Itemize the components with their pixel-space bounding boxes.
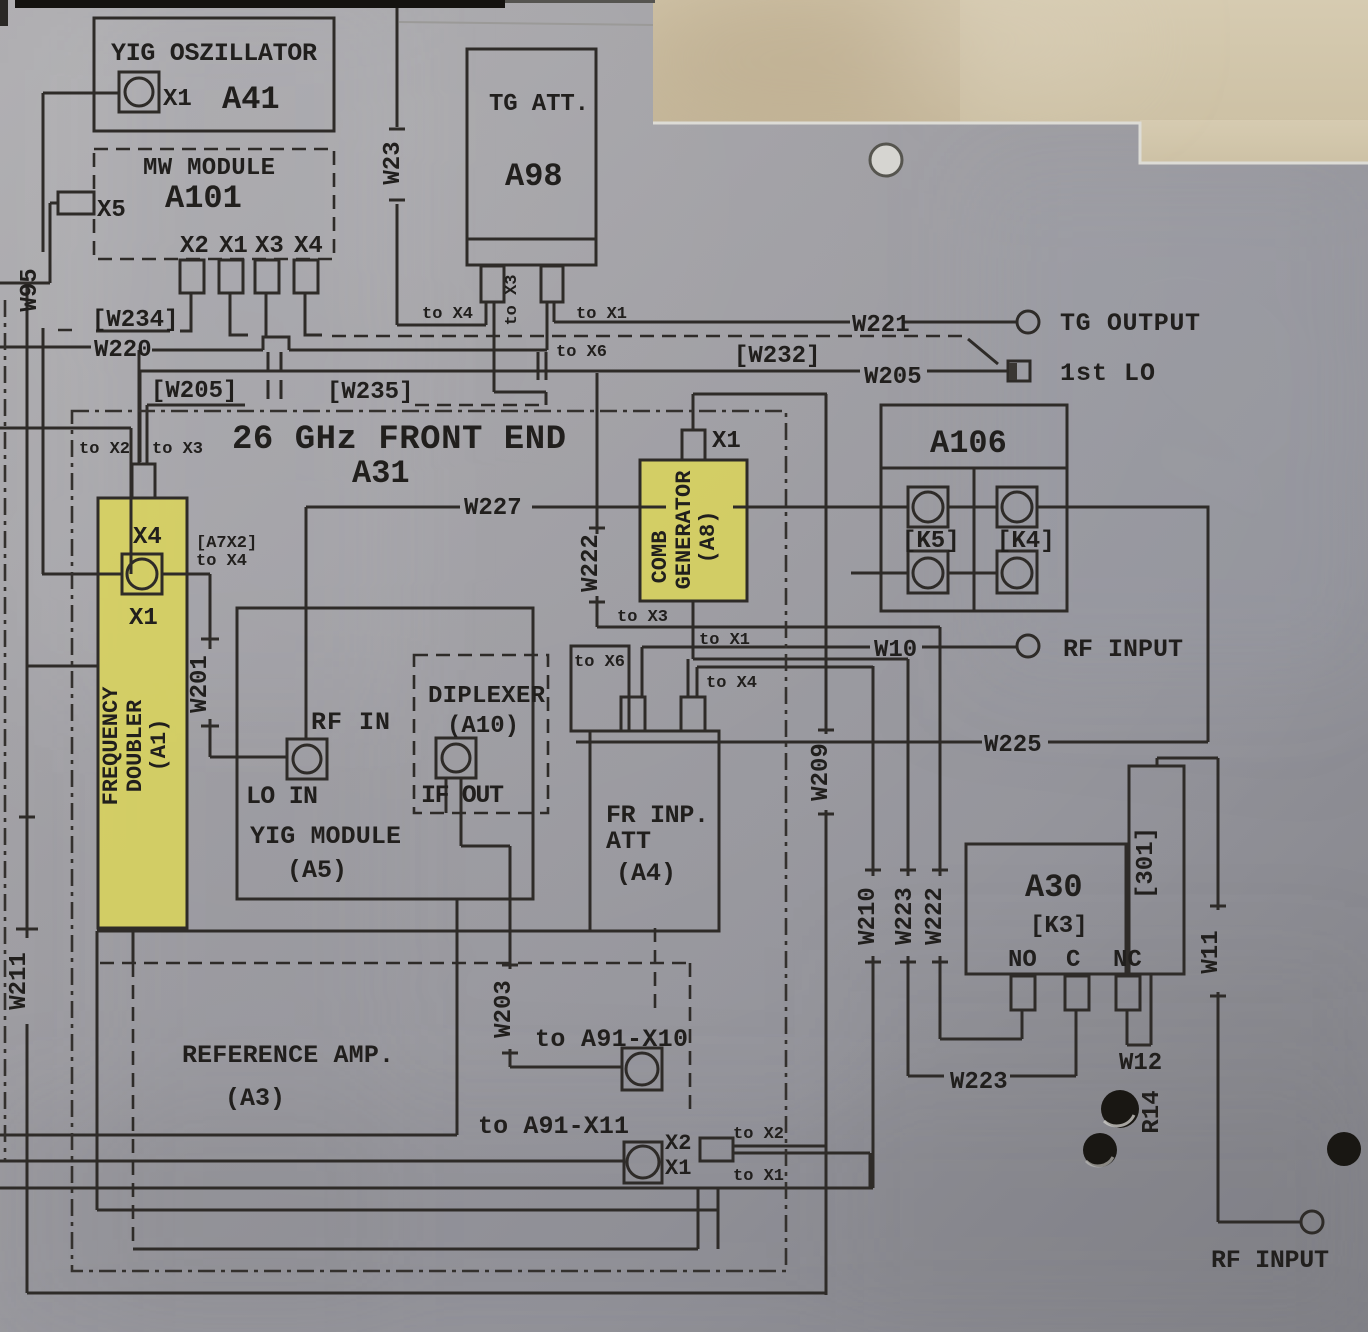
svg-text:X5: X5 [97, 197, 126, 224]
svg-text:X2: X2 [665, 1131, 691, 1156]
svg-text:(A8): (A8) [696, 511, 721, 564]
svg-text:W12: W12 [1119, 1050, 1162, 1077]
svg-text:A41: A41 [222, 81, 280, 118]
svg-text:FREQUENCY: FREQUENCY [99, 686, 124, 806]
svg-text:IF OUT: IF OUT [421, 781, 504, 810]
svg-text:(A4): (A4) [616, 859, 676, 888]
svg-text:to X4: to X4 [706, 674, 757, 693]
svg-text:W223: W223 [950, 1069, 1008, 1096]
svg-text:TG OUTPUT: TG OUTPUT [1060, 309, 1200, 338]
svg-text:(A3): (A3) [225, 1084, 285, 1113]
svg-text:A101: A101 [165, 180, 242, 217]
svg-text:A30: A30 [1025, 869, 1083, 906]
svg-text:to X1: to X1 [576, 305, 627, 324]
svg-text:W222: W222 [578, 534, 605, 592]
svg-text:to X4: to X4 [196, 552, 247, 571]
svg-text:C: C [1066, 947, 1080, 974]
svg-text:to X4: to X4 [422, 305, 473, 324]
svg-text:COMB: COMB [648, 531, 673, 584]
svg-text:NO: NO [1008, 947, 1037, 974]
svg-text:A106: A106 [930, 425, 1007, 462]
svg-text:X1: X1 [219, 233, 248, 260]
svg-text:[A7X2]: [A7X2] [196, 534, 257, 553]
svg-text:X1: X1 [712, 428, 741, 455]
svg-text:W227: W227 [464, 495, 522, 522]
svg-text:W209: W209 [808, 743, 835, 801]
svg-text:DOUBLER: DOUBLER [123, 699, 148, 792]
svg-text:X2: X2 [180, 233, 209, 260]
svg-text:FR INP.: FR INP. [606, 801, 709, 830]
svg-text:X4: X4 [133, 524, 162, 551]
svg-text:W210: W210 [855, 887, 882, 945]
svg-text:NC: NC [1113, 947, 1142, 974]
svg-text:TG ATT.: TG ATT. [489, 91, 589, 118]
svg-text:MW MODULE: MW MODULE [143, 155, 275, 182]
svg-text:to X2: to X2 [733, 1125, 784, 1144]
svg-text:ATT: ATT [606, 827, 651, 856]
svg-text:RF INPUT: RF INPUT [1211, 1246, 1329, 1275]
svg-text:W222: W222 [922, 887, 949, 945]
svg-text:RF IN: RF IN [311, 708, 390, 737]
svg-text:[W205]: [W205] [151, 378, 237, 405]
svg-text:[K5]: [K5] [902, 528, 960, 555]
svg-text:A98: A98 [505, 158, 563, 195]
svg-text:W201: W201 [187, 655, 214, 713]
svg-text:[W232]: [W232] [734, 343, 820, 370]
svg-text:to X2: to X2 [79, 440, 130, 459]
svg-text:W223: W223 [892, 887, 919, 945]
svg-text:to X3: to X3 [503, 274, 522, 325]
svg-text:to X6: to X6 [556, 343, 607, 362]
svg-text:W211: W211 [6, 952, 33, 1010]
svg-text:to X1: to X1 [733, 1167, 784, 1186]
svg-text:LO IN: LO IN [246, 782, 318, 811]
svg-text:to X3: to X3 [617, 608, 668, 627]
svg-text:X4: X4 [294, 233, 323, 260]
svg-text:(A10): (A10) [447, 713, 519, 740]
svg-text:DIPLEXER: DIPLEXER [428, 683, 546, 710]
svg-text:W203: W203 [491, 980, 518, 1038]
svg-text:to A91-X10: to A91-X10 [535, 1025, 688, 1054]
svg-text:YIG MODULE: YIG MODULE [250, 822, 401, 851]
svg-text:W220: W220 [94, 337, 152, 364]
svg-text:W221: W221 [852, 312, 910, 339]
svg-text:W95: W95 [17, 268, 44, 311]
svg-text:W10: W10 [874, 637, 917, 664]
svg-text:X1: X1 [665, 1156, 691, 1181]
svg-text:REFERENCE AMP.: REFERENCE AMP. [182, 1041, 394, 1070]
svg-text:[W234]: [W234] [92, 307, 178, 334]
svg-text:X3: X3 [255, 233, 284, 260]
svg-text:W23: W23 [380, 141, 407, 184]
svg-text:to X6: to X6 [574, 653, 625, 672]
svg-text:X1: X1 [163, 86, 192, 113]
svg-text:[301]: [301] [1133, 827, 1160, 899]
svg-text:to A91-X11: to A91-X11 [478, 1112, 629, 1141]
svg-text:RF INPUT: RF INPUT [1063, 635, 1183, 664]
svg-text:X1: X1 [129, 605, 158, 632]
svg-text:(A5): (A5) [287, 856, 347, 885]
svg-text:W205: W205 [864, 364, 922, 391]
svg-text:W11: W11 [1198, 930, 1225, 973]
svg-text:[K3]: [K3] [1030, 913, 1088, 940]
svg-text:to X3: to X3 [152, 440, 203, 459]
svg-text:W225: W225 [984, 732, 1042, 759]
svg-text:1st LO: 1st LO [1060, 359, 1155, 388]
svg-text:to X1: to X1 [699, 631, 750, 650]
svg-text:26 GHz FRONT END: 26 GHz FRONT END [232, 421, 566, 459]
svg-text:[W235]: [W235] [327, 379, 413, 406]
svg-text:[K4]: [K4] [997, 528, 1055, 555]
svg-text:GENERATOR: GENERATOR [672, 470, 697, 590]
svg-text:R14: R14 [1139, 1090, 1166, 1133]
svg-text:(A1): (A1) [147, 719, 172, 772]
svg-text:YIG OSZILLATOR: YIG OSZILLATOR [111, 39, 317, 68]
svg-text:A31: A31 [352, 455, 410, 492]
